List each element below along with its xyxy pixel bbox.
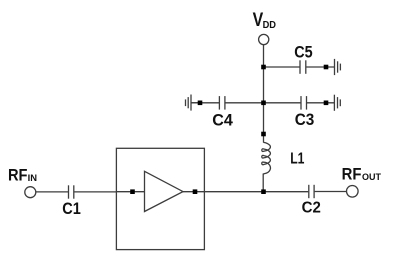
svg-text:OUT: OUT — [362, 172, 381, 182]
svg-text:RF: RF — [8, 166, 28, 185]
svg-text:C5: C5 — [294, 44, 312, 62]
svg-text:C1: C1 — [62, 200, 81, 218]
svg-text:RF: RF — [342, 165, 362, 184]
svg-text:IN: IN — [28, 173, 37, 183]
svg-text:C4: C4 — [212, 111, 233, 129]
svg-text:C3: C3 — [295, 111, 315, 129]
svg-text:C2: C2 — [302, 200, 321, 217]
svg-text:L1: L1 — [290, 150, 304, 167]
svg-text:DD: DD — [263, 20, 277, 31]
